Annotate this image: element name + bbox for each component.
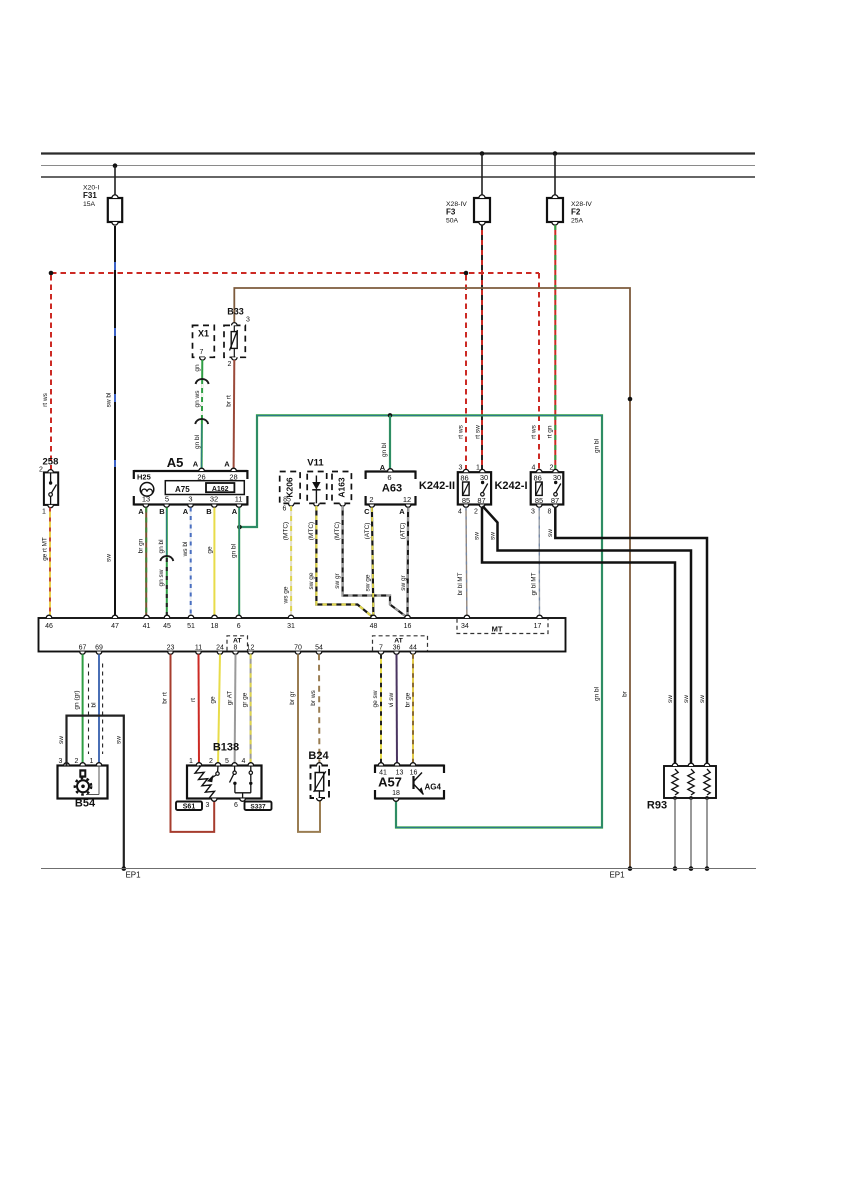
svg-text:B: B [206, 507, 212, 516]
wire gn ws white dashes [201, 384, 203, 419]
fuse F2 X28-IV 25A [547, 198, 563, 222]
B138 heater resistor element [195, 766, 215, 799]
svg-text:4: 4 [532, 465, 536, 472]
svg-text:4: 4 [458, 509, 462, 516]
svg-text:87: 87 [477, 496, 485, 505]
svg-text:16: 16 [410, 770, 418, 777]
svg-text:41: 41 [143, 623, 151, 630]
wire sw R93 resistor 3 to EP1 [706, 798, 708, 869]
svg-text:ws ge: ws ge [283, 586, 290, 604]
svg-text:sw: sw [106, 554, 113, 562]
wire rt ws from junction to K242-II pin 86 [465, 275, 467, 470]
blower motor B54 [58, 766, 108, 799]
svg-text:K242-I: K242-I [494, 480, 527, 492]
svg-text:A: A [138, 507, 144, 516]
R93 resistor 2 [688, 763, 694, 766]
wire gn bl loop linking A5 pin 11, A63 and A57 [240, 415, 603, 827]
connector pin 69 [96, 652, 102, 655]
A5 pin 26 [199, 468, 205, 471]
wire gn / gn ws / gn bl from X1 to A5 pin 26 [201, 360, 204, 470]
A5 pin 3 [188, 505, 194, 508]
control unit A57 [375, 764, 444, 766]
AT dashed box around pins 7 36 44 [373, 636, 428, 651]
wire red dashed distribution line (rt) [51, 272, 539, 274]
svg-text:vi sw: vi sw [388, 692, 395, 707]
svg-text:6: 6 [237, 623, 241, 630]
resistor pack R93 [664, 766, 716, 798]
wire gn bl branch to A63 pin 6 [389, 415, 391, 469]
node junction B54 ground on EP1 [122, 866, 127, 871]
A5 pin 11 [236, 505, 242, 508]
K242-II coil [463, 482, 470, 495]
svg-text:85: 85 [535, 496, 543, 505]
A5 pin 5 [164, 505, 170, 508]
wire gn (gr) pin 67 to B54 pin 2 [82, 654, 84, 765]
wire gn bl A5 pin 11 to pin 6 [238, 508, 240, 619]
AT dashed box around pin 8 [227, 636, 248, 651]
ground line EP1 [41, 868, 756, 870]
fuse F31 X20-I 15A [108, 198, 122, 222]
svg-text:2: 2 [550, 465, 554, 472]
svg-text:6: 6 [387, 473, 391, 482]
connector pin 34 [464, 615, 470, 618]
svg-text:2: 2 [369, 495, 373, 504]
connector pin 7 [378, 652, 384, 655]
svg-text:gn bl: gn bl [158, 539, 165, 554]
svg-text:A: A [193, 460, 199, 469]
svg-text:rt gn: rt gn [547, 425, 554, 438]
connector pin 48 [371, 615, 377, 618]
wire br ge pin 44 to A57 pin 16 [412, 654, 414, 765]
svg-text:sw gr: sw gr [334, 572, 341, 588]
svg-text:(MTC): (MTC) [334, 522, 341, 540]
wire ge A5 pin 32 to pin 18 [213, 508, 215, 619]
connector pin 47 [112, 615, 118, 618]
module A162 inside A5 [206, 483, 234, 492]
R93 resistor 1 [672, 763, 678, 766]
node junction rt ws branch to K242-II [464, 271, 469, 276]
svg-text:(MTC): (MTC) [283, 522, 290, 540]
svg-text:5: 5 [225, 758, 229, 765]
svg-text:br ws: br ws [310, 689, 317, 705]
svg-text:25A: 25A [571, 218, 584, 225]
K242-I switch contact [554, 481, 557, 484]
svg-text:258: 258 [43, 457, 59, 468]
svg-text:A163: A163 [337, 477, 347, 498]
svg-text:86: 86 [460, 474, 468, 483]
connector pin 41 [144, 615, 150, 618]
svg-text:86: 86 [534, 474, 542, 483]
splice S61 [176, 802, 202, 811]
svg-text:sw gr: sw gr [400, 574, 407, 590]
svg-text:B54: B54 [75, 798, 96, 810]
connector pin 44 [410, 652, 416, 655]
wire sw R93 resistor 1 to EP1 [674, 798, 676, 869]
svg-text:6: 6 [283, 506, 287, 513]
svg-text:br ge: br ge [405, 692, 412, 707]
svg-text:26: 26 [197, 473, 205, 482]
svg-text:5: 5 [165, 495, 169, 504]
svg-text:V11: V11 [307, 458, 324, 469]
control unit A5 box [134, 470, 248, 472]
wire br rt pin 23 to B138 pin 3 via S61 [171, 654, 215, 832]
node junction on br wire [628, 397, 633, 402]
svg-text:28: 28 [229, 473, 237, 482]
svg-text:1: 1 [476, 465, 480, 472]
svg-text:31: 31 [287, 623, 295, 630]
svg-text:3: 3 [531, 509, 535, 516]
top supply bus line 2 (15) [41, 165, 755, 167]
svg-text:ge: ge [210, 696, 217, 704]
svg-text:16: 16 [404, 623, 412, 630]
svg-text:gn sw: gn sw [158, 569, 165, 586]
svg-text:A75: A75 [175, 485, 190, 494]
connector pin 18 [212, 615, 218, 618]
svg-text:A162: A162 [212, 486, 229, 493]
svg-text:rt ws: rt ws [458, 424, 465, 438]
svg-text:18: 18 [211, 623, 219, 630]
wire br gn A5 pin 13 to pin 41 [145, 508, 147, 619]
svg-text:gn: gn [194, 364, 201, 372]
svg-text:K206: K206 [285, 477, 295, 498]
svg-text:18: 18 [392, 790, 400, 797]
svg-text:br rt: br rt [162, 692, 169, 704]
svg-text:87: 87 [551, 496, 559, 505]
svg-text:ge rt MT: ge rt MT [42, 537, 49, 561]
svg-text:13: 13 [142, 495, 150, 504]
wire br ws pin 54 to B24 [318, 654, 320, 765]
svg-text:12: 12 [247, 644, 255, 651]
svg-text:gr bl MT: gr bl MT [531, 572, 538, 595]
svg-text:44: 44 [409, 644, 417, 651]
svg-text:ge: ge [207, 546, 214, 554]
svg-text:32: 32 [210, 495, 218, 504]
svg-text:br gn: br gn [138, 538, 145, 553]
module A75 inside A5 [165, 481, 244, 495]
svg-text:sw: sw [667, 695, 674, 703]
svg-text:(MTC): (MTC) [308, 522, 315, 540]
svg-text:46: 46 [45, 623, 53, 630]
A63 pin 2 [369, 505, 375, 508]
connector X1 [193, 325, 215, 357]
svg-text:17: 17 [534, 623, 542, 630]
svg-text:rt: rt [190, 698, 197, 702]
wire sw ge (MTC) V11 to pin 48 [316, 506, 373, 618]
wire gr ge pin 12 to B138 pin 4 [250, 654, 252, 765]
svg-text:3: 3 [246, 317, 250, 324]
svg-text:MT: MT [492, 625, 503, 634]
svg-text:K242-II: K242-II [419, 480, 455, 492]
fuse F3 X28-IV 50A [474, 198, 490, 222]
A63 pin 12 [405, 505, 411, 508]
svg-text:gn bl: gn bl [194, 434, 201, 449]
svg-text:69: 69 [95, 644, 103, 651]
svg-text:8: 8 [548, 509, 552, 516]
svg-text:A57: A57 [378, 775, 402, 790]
wire ge pin 24 to B138 pin 2 [218, 654, 220, 765]
svg-text:gr ge: gr ge [242, 692, 249, 707]
A57 pin 18 [393, 799, 399, 802]
svg-text:gn bl: gn bl [594, 438, 601, 453]
svg-text:1: 1 [90, 758, 94, 765]
svg-text:12: 12 [403, 495, 411, 504]
connector pin 8 [233, 652, 239, 655]
wire ws ge (MTC) K206 to pin 31 [290, 506, 292, 618]
svg-text:11: 11 [235, 495, 243, 504]
svg-text:23: 23 [167, 644, 175, 651]
wire gr AT pin 8 to B138 pin 5 [234, 654, 237, 765]
top supply bus line 1 (30) [41, 152, 755, 154]
svg-text:A: A [183, 507, 189, 516]
svg-text:45: 45 [163, 623, 171, 630]
wire rt gn from F2 to K242-I pin 30 [554, 225, 556, 470]
svg-text:(ATC): (ATC) [400, 523, 407, 540]
connector pin 70 [295, 652, 301, 655]
wire bl pin 69 to B54 pin 1 [98, 654, 100, 765]
wire sw R93 resistor 2 to EP1 [690, 798, 692, 869]
svg-text:H25: H25 [137, 473, 151, 482]
node junction F31 on bus line 2 [113, 163, 118, 168]
wire sw ge (ATC) A63 pin 2 to pin 48 [372, 508, 374, 618]
wire ws bl A5 pin 3 to pin 51 [190, 508, 192, 619]
wire gr bl MT K242-I pin 85 to MT pin 17 [538, 508, 540, 619]
svg-text:sw: sw [547, 529, 554, 537]
connector pin 36 [394, 652, 400, 655]
wire ge sw pin 7 to A57 pin 41 [380, 654, 382, 765]
wire br from B33 up over to right and down to EP1 [234, 288, 630, 869]
wire sw gr (MTC) A163 to pin 16 [343, 506, 408, 618]
svg-text:1: 1 [42, 509, 46, 516]
wire F31 feed [114, 166, 116, 198]
svg-text:rt ws: rt ws [531, 424, 538, 438]
svg-text:34: 34 [461, 623, 469, 630]
svg-text:48: 48 [370, 623, 378, 630]
svg-text:F2: F2 [571, 208, 581, 217]
wire gn bl blue core below break [201, 424, 203, 470]
A5 pin 28 [231, 468, 237, 471]
connector pin 24 [217, 652, 223, 655]
svg-text:A63: A63 [382, 483, 402, 495]
svg-text:gn bl: gn bl [594, 686, 601, 701]
svg-text:3: 3 [459, 465, 463, 472]
node junction F2 on bus line 1 [553, 151, 558, 156]
svg-text:85: 85 [283, 497, 291, 504]
wire ge rt MT from 258 to connector pin 46 [49, 508, 51, 619]
R93 resistor 3 [704, 763, 710, 766]
svg-text:11: 11 [195, 644, 202, 651]
wire sw K242-II pin 87 diagonal to R93 resistor 2 [483, 506, 692, 766]
svg-text:sw bl: sw bl [106, 392, 113, 407]
svg-text:30: 30 [480, 473, 488, 482]
svg-text:X1: X1 [198, 329, 209, 339]
connector pin 11 [196, 652, 202, 655]
svg-text:F31: F31 [83, 191, 97, 200]
svg-text:sw: sw [116, 736, 123, 744]
svg-text:15A: 15A [83, 201, 96, 208]
B138 pin 6 [240, 799, 246, 802]
svg-text:A: A [399, 507, 405, 516]
svg-text:7: 7 [200, 349, 204, 356]
svg-text:70: 70 [294, 644, 302, 651]
wire F3 feed [481, 154, 483, 199]
node junction br wire on EP1 [628, 866, 633, 871]
svg-text:2: 2 [75, 758, 79, 765]
connector pin 67 [80, 652, 86, 655]
svg-text:gn ws: gn ws [194, 390, 201, 408]
wire rt sw from F3 to K242-II pin 30 [481, 225, 483, 470]
node junction gn bl branch to A63 [388, 413, 393, 418]
svg-text:67: 67 [79, 644, 87, 651]
svg-text:B138: B138 [213, 742, 239, 754]
svg-text:br gr: br gr [289, 690, 296, 704]
connector A163 [332, 472, 351, 504]
svg-text:2: 2 [474, 509, 478, 516]
svg-text:A: A [232, 507, 238, 516]
svg-text:sw: sw [474, 532, 481, 540]
wire sw gr (ATC) A63 pin 12 to pin 16 [406, 508, 409, 618]
B138 wiper arrow from pin 2 [217, 766, 219, 773]
connector pin 51 [188, 615, 194, 618]
control unit A63 box [366, 470, 416, 472]
connector pin 17 [537, 615, 543, 618]
wire F2 feed [554, 154, 556, 199]
wire break symbol lower [195, 419, 208, 424]
svg-text:B24: B24 [308, 750, 329, 762]
svg-text:R93: R93 [647, 800, 667, 812]
svg-text:2: 2 [39, 467, 43, 474]
connector pin 54 [316, 652, 322, 655]
svg-text:8: 8 [234, 644, 238, 651]
connector pin 46 [46, 615, 52, 618]
svg-text:bl: bl [91, 702, 98, 708]
connector bar MT/AT box [39, 618, 566, 652]
wire sw K242-I pin 87 to R93 resistor 3 [555, 507, 707, 766]
wire br rt from B33 to A5 pin 28 [233, 360, 236, 470]
wire sw K242-II pin 87 straight to R93 resistor 1 [482, 507, 675, 766]
wire break symbol upper [196, 379, 209, 384]
wire rt ws to switch 258 [50, 275, 52, 470]
svg-text:24: 24 [216, 644, 224, 651]
B138 switch pin 4 [250, 766, 252, 772]
svg-text:br: br [622, 690, 629, 697]
svg-text:7: 7 [379, 644, 383, 651]
svg-text:br bl MT: br bl MT [457, 572, 464, 595]
connector pin 16 [405, 615, 411, 618]
svg-text:sw: sw [699, 695, 706, 703]
K242-I coil [536, 482, 543, 495]
svg-text:54: 54 [315, 644, 323, 651]
svg-text:rt sw: rt sw [475, 425, 482, 439]
svg-text:sw: sw [58, 736, 65, 744]
svg-text:ge sw: ge sw [372, 690, 379, 707]
connector pin 31 [288, 615, 294, 618]
sensor B33 [224, 325, 245, 357]
relay connector K206 [280, 472, 300, 504]
svg-text:6: 6 [234, 802, 238, 809]
A5 pin 32 [212, 505, 218, 508]
svg-text:A: A [224, 460, 230, 469]
svg-text:sw ge: sw ge [308, 572, 315, 589]
svg-text:gn bl: gn bl [381, 442, 388, 457]
svg-text:sw: sw [683, 695, 690, 703]
top supply bus line 3 (X) [41, 176, 755, 178]
svg-text:3: 3 [206, 802, 210, 809]
splice S337 [245, 802, 272, 811]
svg-text:51: 51 [187, 623, 195, 630]
B138 pin 3 [211, 799, 217, 802]
svg-text:B: B [159, 507, 165, 516]
resistor symbol inside B33 [231, 332, 237, 349]
svg-text:sw: sw [490, 532, 497, 540]
svg-text:A: A [380, 463, 386, 472]
transistor AG4 inside A57 [412, 776, 414, 789]
connector pin 12 [248, 652, 254, 655]
svg-text:4: 4 [242, 758, 246, 765]
svg-text:br rt: br rt [226, 395, 233, 407]
node junction at left end of red line [49, 271, 54, 276]
svg-text:gr AT: gr AT [227, 691, 234, 706]
svg-text:sw ge: sw ge [365, 574, 372, 591]
svg-text:ws bl: ws bl [182, 541, 189, 557]
wire vi sw pin 36 to A57 pin 13 [396, 654, 399, 765]
svg-text:F3: F3 [446, 208, 456, 217]
shield dashed line right [102, 664, 104, 755]
svg-text:C: C [364, 507, 370, 516]
svg-text:S337: S337 [250, 803, 266, 810]
K242-II switch contact [481, 481, 484, 484]
svg-text:47: 47 [111, 623, 119, 630]
connector pin 45 [164, 615, 170, 618]
wire br bl MT K242-II pin 85 to MT pin 34 [465, 508, 468, 619]
node junction gn bl at A5 pin 11 wire [237, 525, 242, 530]
svg-text:A5: A5 [167, 455, 184, 470]
svg-text:1: 1 [189, 758, 193, 765]
svg-text:2: 2 [228, 361, 232, 368]
svg-text:S61: S61 [183, 803, 196, 810]
svg-text:50A: 50A [446, 218, 459, 225]
svg-text:36: 36 [393, 644, 401, 651]
svg-text:30: 30 [553, 473, 561, 482]
svg-text:gn (gr): gn (gr) [74, 690, 81, 709]
svg-text:EP1: EP1 [125, 871, 141, 880]
connector pin 23 [168, 652, 174, 655]
wire sw B54 pin 3 to EP1 [67, 716, 124, 869]
B138 switch pin 5 [234, 766, 236, 772]
wire sw bl from F31 to connector pin 47 [114, 226, 116, 618]
svg-text:3: 3 [188, 495, 192, 504]
wire rt ws from red line to K242-I pin 86 [538, 273, 540, 470]
connector pin 6 [236, 615, 242, 618]
wire gn bl / gn sw A5 pin 5 to pin 45 [166, 508, 168, 619]
svg-text:rt ws: rt ws [42, 392, 49, 406]
wire rt pin 11 to B138 pin 1 [198, 654, 201, 765]
svg-text:85: 85 [462, 496, 470, 505]
A5 pin 13 [143, 505, 149, 508]
MT dashed box [457, 619, 548, 634]
svg-text:AG4: AG4 [425, 783, 442, 792]
svg-text:gn bl: gn bl [231, 543, 238, 558]
A63 pin 6 [388, 469, 394, 472]
svg-text:(ATC): (ATC) [364, 523, 371, 540]
svg-text:B33: B33 [227, 307, 244, 317]
svg-text:EP1: EP1 [609, 871, 625, 880]
wire br gr pin 70 to B24 low side [298, 654, 320, 832]
node junction F3 on bus line 1 [480, 151, 485, 156]
shield dashed line left [88, 664, 90, 755]
svg-text:2: 2 [209, 758, 213, 765]
svg-text:3: 3 [59, 758, 63, 765]
